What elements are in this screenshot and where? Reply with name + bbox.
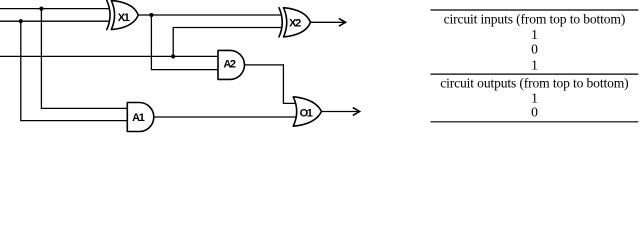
svg-text:0: 0 (531, 105, 538, 120)
svg-text:1: 1 (531, 91, 538, 106)
svg-text:circuit outputs (from top to b: circuit outputs (from top to bottom) (440, 76, 628, 92)
svg-text:A1: A1 (132, 112, 145, 124)
svg-text:A2: A2 (223, 58, 236, 70)
svg-text:1: 1 (531, 27, 538, 42)
svg-text:X2: X2 (289, 18, 301, 30)
svg-text:0: 0 (531, 42, 538, 57)
svg-text:O1: O1 (300, 107, 313, 119)
svg-text:circuit inputs (from top to bo: circuit inputs (from top to bottom) (444, 12, 626, 28)
svg-text:X1: X1 (118, 12, 130, 24)
svg-text:1: 1 (531, 58, 538, 73)
